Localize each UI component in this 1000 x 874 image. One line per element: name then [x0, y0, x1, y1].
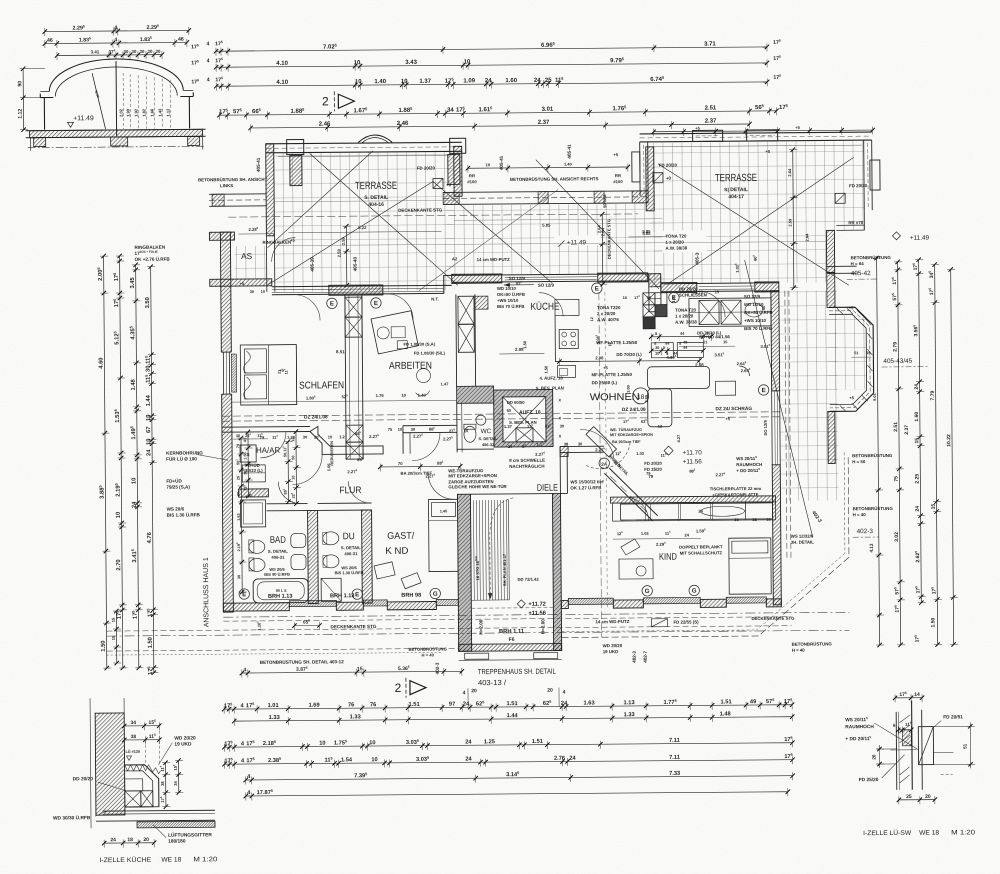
- texts terrace middle extra: [589, 192, 811, 443]
- partition WOHNEN/KIND with closet: [610, 496, 775, 521]
- vertical mini dims right of corner block: [165, 763, 167, 807]
- dims detail kueche bottom: [104, 842, 154, 844]
- balcony floor tiles right of WOHNEN: [779, 290, 839, 500]
- wall right terrace east: [864, 140, 881, 210]
- interior mini dims flur column: [282, 429, 301, 506]
- bed KIND: [729, 538, 771, 594]
- detail drawing: arch cross-section top-left: [17, 24, 206, 151]
- steps below stairwell: [459, 653, 562, 661]
- window marker circles south wall: [239, 585, 699, 600]
- FD 20/51 box: [918, 727, 933, 765]
- wall diagonal DIELE/KIND: [604, 468, 657, 521]
- pier hatched kueche east: [598, 273, 648, 282]
- shower DU: [321, 578, 341, 601]
- wall DIELE top: [560, 446, 604, 452]
- left dim 20 detail lue-sw: [876, 748, 896, 750]
- interior mini dim column left wall 2: [242, 430, 253, 498]
- window wall north kueche section: [452, 274, 649, 283]
- pillar bump right terrace 1: [693, 130, 723, 141]
- wall junction left terrace east: [454, 146, 462, 196]
- mid level line: [890, 749, 916, 751]
- door circle 2A DIELE: [599, 454, 630, 477]
- vertical dim line right terrace east: [787, 147, 798, 289]
- pillar left terrace hatched 2: [448, 154, 460, 184]
- door arcs FLUR: [260, 430, 455, 504]
- window sills south wall: [289, 597, 766, 607]
- small dims inside plan: [230, 221, 814, 551]
- hatch upper wall detail lue-sw: [899, 715, 910, 723]
- dimension chain bottom row 3: [222, 736, 794, 752]
- parapet octagon bay: [829, 307, 874, 411]
- washbasins DU: [323, 532, 339, 568]
- span diagonals left terrace: [267, 182, 434, 285]
- wall GAST right / stair left: [457, 494, 471, 651]
- dim ticks inside kueche top: [649, 332, 714, 356]
- dim row middle terrace gap: [466, 161, 630, 173]
- wall BAD/DU divider: [308, 510, 319, 603]
- white patch behind +11.49 left: [554, 235, 600, 245]
- detail drawing I-ZELLE LUE-SW bottom-right: [845, 690, 976, 837]
- wall stub DIELE/WOHNEN: [560, 446, 568, 493]
- sub rect hatched: [902, 730, 911, 746]
- terrace floor tiles right: [649, 141, 865, 232]
- long guide diagonal middle: [418, 190, 559, 291]
- sideboard WOHNEN bottom: [621, 503, 773, 520]
- dimension chain right col 1: [867, 256, 885, 648]
- washbasins BAD: [291, 534, 306, 570]
- window wall north schlafen section: [272, 285, 444, 294]
- kitchen counter and stove: [555, 299, 580, 377]
- bathtub BAD: [253, 579, 308, 603]
- shaft wall schlafen/arbeiten: [345, 295, 363, 459]
- wall FLUR north (under schlafen/arbeiten): [222, 425, 457, 455]
- wall right terrace west parapet: [632, 142, 648, 196]
- dimension chain bottom row 4: [222, 753, 794, 769]
- dimension chain top row 5: [248, 118, 751, 132]
- pier hatched kueche west: [452, 274, 502, 283]
- corner block with insulation detail kueche: [125, 765, 159, 807]
- hatch lower detail lue-sw: [900, 767, 910, 775]
- label 405-42: [847, 270, 879, 279]
- parapet right terrace upper: [826, 230, 834, 272]
- armchair ARBEITEN lower: [415, 369, 430, 396]
- dashed ceiling line DZ across plan: [222, 405, 780, 421]
- wall AS bottom: [210, 279, 272, 286]
- section marker 2 bottom: [395, 678, 426, 698]
- note fd+ud left: [166, 477, 190, 489]
- dimension chain right col 4: [928, 262, 942, 646]
- shower BAD: [240, 500, 265, 527]
- pillar bump right terrace 2: [747, 130, 778, 141]
- bed GAST: [428, 499, 459, 571]
- door arcs top rooms: [271, 234, 726, 524]
- window wall north wohnen section: [661, 283, 779, 292]
- dimension chain left col 4: [144, 265, 159, 676]
- dimension chain bottom row 5: [243, 769, 794, 785]
- room WC: [457, 386, 499, 452]
- wall step at x445: [444, 275, 452, 293]
- wall south exterior: [223, 599, 781, 611]
- dimension chain right col 3: [912, 257, 926, 604]
- note betonbruestung h50: [852, 453, 893, 464]
- floor slab lines detail kueche: [103, 809, 215, 812]
- dimension chain right col 2: [891, 260, 912, 648]
- room label WOHNEN with number 18: [590, 388, 649, 404]
- wardrobe DIELE diagonal: [586, 426, 630, 469]
- kitchen counter upper right: [689, 298, 771, 327]
- wall junction right terrace west: [646, 147, 655, 211]
- wall left terrace north parapet: [266, 142, 462, 153]
- wall lines detail lue-sw: [895, 712, 898, 790]
- dims FLUR row: [260, 417, 726, 481]
- dimension chain left col 1: [97, 254, 112, 670]
- wall band detail kueche: [95, 713, 125, 815]
- pillar left terrace hatched 1: [290, 156, 302, 186]
- vertical dim line left terrace: [341, 224, 352, 287]
- detail drawing I-ZELLE KUECHE bottom-left: [52, 697, 218, 864]
- dimension chain right col 5: [911, 267, 958, 647]
- wall left exterior: [220, 232, 233, 612]
- note FD+UD 30/23: [233, 433, 268, 473]
- terrace floor tiles middle strip: [446, 204, 649, 276]
- note betonbruestung h40 right: [853, 506, 894, 517]
- texts BAD DU notes: [264, 545, 364, 577]
- pillar bump left terrace 1: [287, 140, 304, 155]
- notes below south wall: [255, 614, 832, 675]
- span diagonals right terrace: [658, 162, 849, 286]
- note ws left: [167, 506, 201, 517]
- dimension chain top row 4: [217, 103, 789, 120]
- pier hatched window wall 1: [329, 285, 383, 295]
- stairwell TREPPENHAUS: [457, 494, 561, 652]
- desk KIND: [619, 539, 653, 579]
- note betonbruestung h64: [851, 255, 892, 266]
- sill band detail kueche: [137, 821, 215, 828]
- terrace floor tiles AS nook: [234, 246, 266, 279]
- extra horizontal guide lines terraces: [274, 197, 826, 245]
- balcony dashed outline bottom right: [559, 290, 850, 637]
- parapet band left of AS: [209, 194, 266, 206]
- desk ARBEITEN: [371, 311, 418, 354]
- label TREPPENHAUS: [478, 667, 556, 688]
- wall FLUR south / BAD top: [267, 503, 372, 511]
- dimension chain top row 2: [191, 53, 781, 72]
- note ringbalken left: [134, 245, 170, 262]
- window in left wall schlafen: [220, 352, 232, 394]
- parapet segment 405-42: [827, 266, 857, 307]
- landing labels stairwell: [478, 600, 547, 644]
- shaft wall arbeiten/kueche: [456, 294, 489, 386]
- wall left terrace west: [266, 144, 275, 236]
- notes kueche area: [431, 233, 774, 387]
- kernbohrung pointer: [196, 454, 228, 460]
- notes plan top area: [198, 142, 870, 426]
- terrace floor tiles left: [274, 151, 455, 291]
- parapet below octagon: [828, 411, 835, 463]
- room label TERRASSE left: [355, 180, 397, 208]
- tiny dim rows in AS nook: [239, 281, 288, 375]
- level mark +11.49 left terrace: [558, 239, 586, 246]
- mini vertical chain bottom-left parapet: [111, 609, 122, 665]
- level mark +11.70 WOHNEN: [664, 446, 702, 466]
- room label TERRASSE right: [715, 172, 757, 200]
- level mark +11.49 right: [892, 232, 929, 242]
- vertical dim line middle terrace: [596, 212, 607, 286]
- wall right terrace north parapet: [640, 132, 872, 142]
- dimension ticks along right terrace top: [651, 124, 874, 136]
- notes middle area: [400, 419, 823, 558]
- wall DU/GAST divider: [362, 510, 373, 603]
- room label GAST/KIND: [385, 531, 415, 557]
- dimension chain top row 3: [191, 72, 781, 91]
- interior mini dim column left wall: [235, 436, 247, 594]
- right dim 51 detail lue-sw: [933, 725, 973, 727]
- label 402-3 right: [853, 528, 879, 537]
- white patch behind tona note top: [662, 230, 706, 252]
- section marker 2 top: [322, 91, 354, 111]
- wall HA/AR shelf band: [238, 445, 268, 497]
- sofa WOHNEN: [647, 342, 750, 427]
- dims gast row: [378, 459, 463, 478]
- note kernbohrung left: [166, 450, 203, 461]
- pier hatched wohnen west: [661, 282, 697, 292]
- wall right exterior WOHNEN/KIND: [771, 291, 781, 605]
- parapet dashed right balcony: [785, 291, 791, 558]
- dimension row under stairwell: [240, 664, 464, 677]
- pillar bump left terrace arch: [359, 135, 392, 143]
- desk GAST: [374, 562, 421, 589]
- dims detail lue-sw bottom: [899, 799, 935, 801]
- dimension chain bottom row 2: [232, 711, 794, 726]
- toilets BAD: [249, 540, 265, 572]
- dimension chain bottom row 1: [222, 698, 794, 714]
- pillar bump left terrace 2: [450, 138, 466, 153]
- label 405-43/45: [881, 358, 927, 367]
- pier hatched window wall 4: [755, 282, 779, 292]
- elevator AUFZ block: [494, 390, 553, 447]
- dimension chain left col 2: [113, 254, 128, 670]
- dimension chain bottom row 6: [244, 785, 790, 801]
- parapet dashed lines below south wall: [106, 612, 849, 655]
- dims wohnen area: [543, 293, 767, 374]
- dimension chain top row 1: [191, 36, 781, 56]
- dims detail kueche top: [124, 725, 159, 727]
- parapet band middle between terraces: [443, 191, 648, 205]
- dimension chain left col 3: [129, 263, 143, 670]
- shaft column at x650: [649, 274, 661, 312]
- window marker circles north wall: [327, 282, 769, 399]
- bed SCHLAFEN: [240, 345, 296, 405]
- dims detail lue-sw top: [895, 697, 922, 699]
- shaft boxes kueche right: [643, 293, 667, 329]
